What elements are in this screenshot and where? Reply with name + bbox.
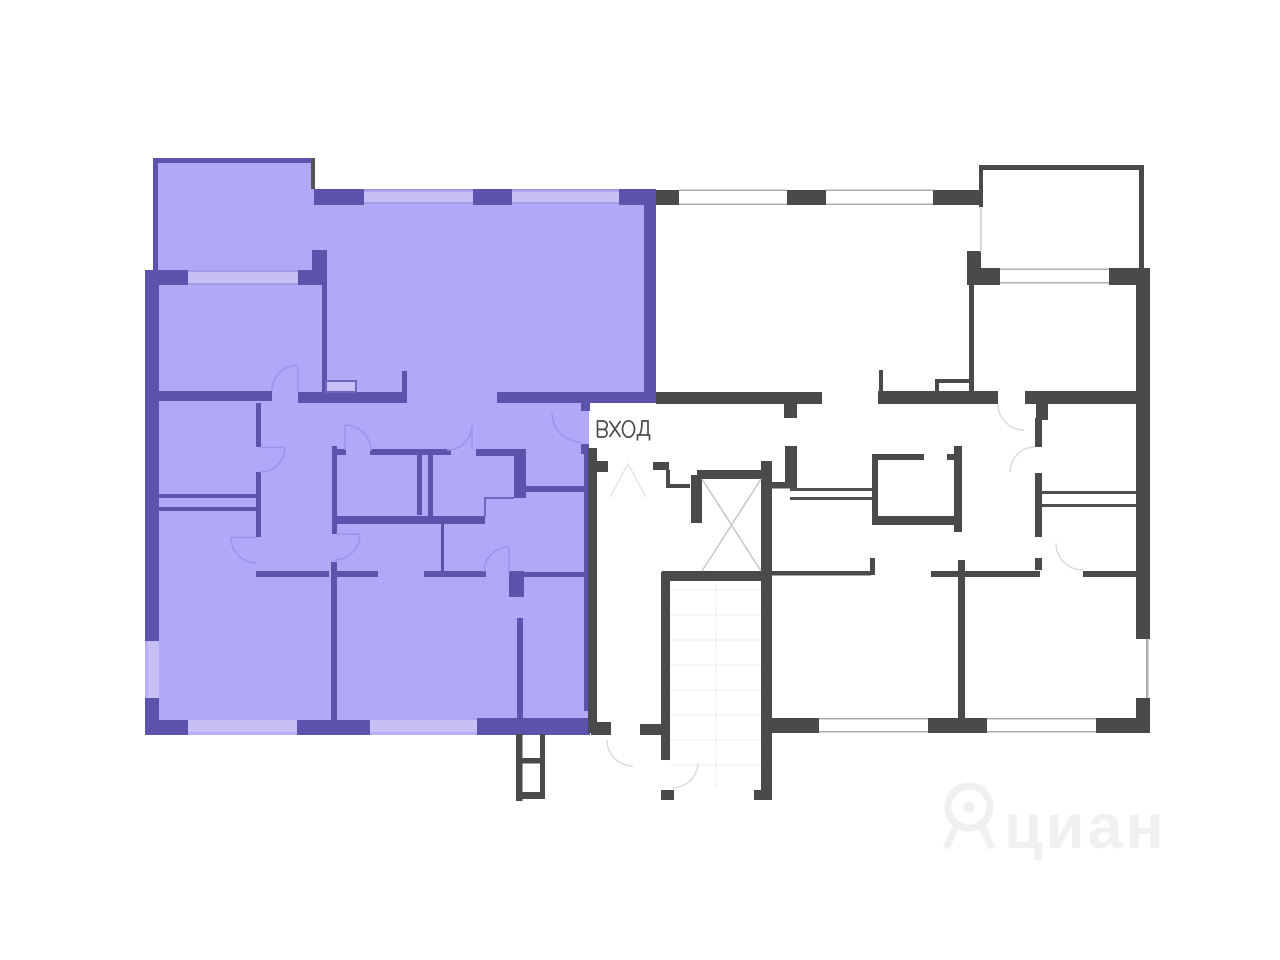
top wall pier 3 [619, 189, 645, 205]
lower wall tick b [1035, 558, 1042, 570]
double wall line 2 [157, 507, 258, 511]
door arc bedroom2 top [272, 365, 298, 391]
bottom band segment stairwell arm [772, 718, 819, 733]
stub to bathroom2 [1036, 404, 1048, 420]
lobby L wall v [666, 470, 670, 488]
right outer wall [644, 189, 656, 403]
corridor south wall tick [870, 558, 875, 575]
bottom wall left segment [145, 720, 188, 735]
right edge thin wall [584, 454, 588, 711]
corridor south wall [772, 571, 871, 576]
wall below left door [256, 472, 261, 537]
corridor left wall [588, 448, 597, 722]
TR balcony window lines [1000, 269, 1109, 271]
living/bedroom divider wall [322, 283, 327, 392]
entry door jamb [581, 403, 590, 411]
ladder balcony below entrance [516, 734, 545, 801]
kitchen top wall [370, 449, 451, 455]
balcony TR top wall [979, 165, 1144, 170]
elevator X cross [702, 479, 761, 571]
bedroom1 bottom wall [155, 391, 272, 401]
entrance piers bottom [591, 724, 611, 735]
balcony TR left lower thin [980, 207, 982, 252]
kitchen counter outline [326, 381, 356, 392]
wall right of kitchen door arc [476, 449, 526, 456]
stub above wall [879, 370, 883, 392]
left outer wall lower [145, 698, 159, 735]
balcony window band [188, 270, 298, 285]
lower wall door arc right [1056, 543, 1083, 570]
elevator right wall [761, 461, 772, 574]
balcony TR left wall upper [979, 170, 983, 207]
top wall pier B [933, 190, 979, 205]
wall block left of balcony window [145, 270, 188, 285]
bathroom door tick [947, 454, 954, 460]
right apt bath door arc [1010, 447, 1035, 472]
bathroom bottom wall [872, 516, 962, 525]
pier above corner block [312, 250, 327, 285]
mid wall seg 1 [656, 392, 822, 404]
stairwell inner arc [672, 763, 698, 788]
window sill detail [935, 379, 973, 392]
top wall window 1 [364, 189, 473, 205]
lobby entry arcs [610, 464, 646, 497]
wall above left stub [256, 403, 261, 447]
corner block bottom-right room [509, 571, 524, 597]
bottom wall window 2 [370, 720, 477, 735]
stub below mid wall [784, 404, 797, 418]
mid wall seg 2 [878, 391, 998, 404]
bathroom step line [485, 498, 514, 517]
watermark pin icon [946, 786, 992, 848]
corridor double lines [790, 488, 872, 491]
bottom window lines 2 [987, 718, 1096, 720]
stairwell right foot [754, 790, 772, 800]
bottom band pier B [1096, 718, 1150, 733]
entry hall wall [526, 486, 588, 492]
hall lower wall seg 4 [524, 572, 588, 577]
entrance label [598, 421, 650, 441]
left outer wall [145, 270, 159, 641]
elevator top wall [697, 470, 772, 479]
corridor wall foot [588, 722, 611, 733]
bottom-right room left wall [517, 618, 523, 720]
corner block right of balcony window [298, 270, 327, 285]
duct wall line 2 [428, 454, 433, 519]
bottom window lines 1 [819, 718, 928, 720]
block connecting balcony [967, 251, 981, 285]
top window 2 lines [826, 190, 933, 192]
entry door jamb lower [581, 444, 589, 454]
hall lower wall seg 2 [337, 571, 378, 577]
door stub left [256, 520, 261, 537]
top wall pier A [787, 190, 826, 205]
elevator left wall [691, 475, 702, 523]
bathroom right wall [954, 446, 962, 532]
lower wall seg c [1083, 571, 1136, 577]
bathroom top wall [872, 454, 924, 460]
bathroom left wall [872, 454, 878, 525]
top window 1 lines [679, 190, 787, 192]
stairwell left wall [661, 572, 670, 760]
wall segment right [1035, 473, 1042, 537]
bottom band pier A [928, 718, 987, 733]
hall mid wall [336, 516, 485, 524]
hall lower wall seg 3 [424, 571, 486, 577]
kitchen top stub [337, 449, 346, 455]
corridor double lines right [1042, 491, 1136, 494]
interior vertical wall upper [969, 285, 974, 392]
corridor wall tick [597, 461, 608, 472]
stub right of hall top wall [402, 371, 407, 392]
lobby corner block [653, 462, 669, 470]
top wall block next to purple [656, 190, 679, 205]
bottom rooms divider [958, 560, 965, 718]
stairwell right wall [761, 574, 772, 800]
apartment fill (highlighted unit) [145, 158, 656, 733]
bottom wall window 1 [188, 720, 297, 735]
double wall line 1 [157, 494, 258, 498]
L-block right of bathroom [514, 450, 526, 498]
door arc kitchen [345, 425, 371, 451]
hall top wall [298, 392, 407, 403]
kitchen left wall [332, 446, 337, 534]
door arc apartment entry [552, 413, 581, 442]
right apt top door arc [998, 404, 1024, 430]
faint door arcs gray [607, 404, 1083, 788]
top wall window 2 [512, 189, 619, 205]
stairwell bottom-left block [661, 790, 674, 800]
door arc bottom-right room [484, 547, 509, 572]
bottom wall middle segment [297, 720, 370, 735]
right wall window line [1146, 639, 1149, 698]
balcony TR bottom blocks [979, 268, 1000, 285]
bottom wall right block [477, 718, 590, 735]
left wall window [145, 641, 159, 698]
balcony right edge gray line [311, 158, 315, 189]
elevator bottom wall [662, 571, 762, 581]
right apt door jamb [785, 446, 797, 488]
mid wall seg 3 [1025, 391, 1138, 404]
top wall pier 2 [473, 189, 512, 205]
balcony left wall [153, 158, 158, 270]
lobby L wall h [666, 484, 690, 488]
lower wall seg b [931, 571, 1040, 577]
svg-text:циан: циан [1004, 792, 1167, 862]
entry wall bottom-right [497, 392, 657, 403]
door arc bedroom3 [334, 534, 360, 560]
top wall pier 1 [314, 189, 364, 205]
balcony top wall [153, 158, 315, 163]
stair treads [670, 583, 761, 788]
stairwell door arc [607, 740, 633, 766]
door arc left lower [231, 538, 257, 564]
right outer wall [1136, 268, 1150, 639]
door arc hall left [260, 448, 285, 473]
door arc bathroom top [447, 425, 472, 450]
bottom rooms divider wall [331, 562, 337, 720]
jamb to elevator link wall [772, 482, 790, 489]
balcony TR right wall [1139, 165, 1144, 268]
vertical thin wall in hall [441, 523, 444, 571]
hall lower wall seg 1 [256, 571, 329, 577]
duct wall line 1 [417, 454, 422, 515]
right outer wall lower [1136, 698, 1150, 733]
